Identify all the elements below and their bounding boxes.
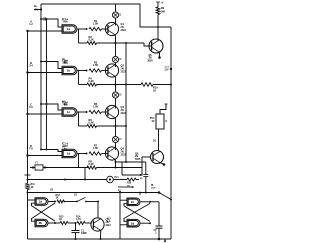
power bus +5V vertical (left) [40, 4, 42, 150]
series ticks row 2 [64, 60, 66, 63]
wire motor arrow [118, 186, 133, 188]
wire gate output row 1 [77, 28, 87, 30]
svg-text:12V: 12V [164, 70, 169, 72]
series ticks row 1 [43, 17, 45, 20]
resistor R3 [89, 69, 102, 72]
signal bus vertical (left) [46, 19, 48, 150]
wire upper input row 3 [41, 104, 62, 110]
wire emitter row 4 [114, 159, 116, 162]
svg-text:2b: 2b [39, 221, 43, 225]
capacitor C4 drop [145, 162, 147, 175]
emitter rail row 2 with R10 [97, 84, 142, 86]
lamp I3 [112, 92, 118, 98]
input node row 1 [26, 30, 28, 32]
node +5V terminal [40, 8, 42, 10]
wire latch B input bottom [120, 224, 127, 226]
wire collector row 3 [115, 98, 117, 108]
wire rail4 to supply rail [84, 168, 86, 180]
svg-text:1K: 1K [153, 89, 156, 92]
svg-text:R15: R15 [127, 183, 132, 185]
wire rail 4 left extension [30, 167, 35, 169]
svg-text:1.5K: 1.5K [93, 64, 98, 67]
wire Q6 base [142, 156, 151, 158]
wire input stub row 4 [28, 155, 63, 157]
lamp I2 [112, 56, 118, 62]
terminal arrow [164, 239, 166, 242]
resistor R9 [157, 2, 159, 7]
wire Q7 collector [97, 202, 99, 219]
wire gate output row 2 [77, 70, 87, 72]
svg-text:6V: 6V [152, 120, 155, 123]
svg-text:1.5K: 1.5K [93, 23, 98, 26]
wire upper input row 1 [41, 19, 62, 27]
wire latch B feed vertical [119, 192, 121, 239]
resistor R14 [77, 221, 85, 224]
gate IC2-b [35, 219, 48, 227]
svg-text:(+): (+) [166, 66, 169, 69]
resistor R2 [79, 42, 88, 44]
svg-text:1K: 1K [59, 219, 62, 221]
wire lamp top row 2 [115, 43, 117, 56]
wire latch B cross-coupling [140, 201, 150, 203]
transistor Q6 [151, 151, 164, 164]
wire base row 2 [102, 70, 109, 72]
svg-text:1K: 1K [31, 187, 34, 189]
input node row 4 [26, 154, 28, 156]
wire gate output row 3 [77, 111, 87, 113]
transistor Q1 [105, 22, 118, 35]
supply rail horizontal [28, 179, 107, 181]
svg-text:R14: R14 [76, 216, 81, 219]
wire gate output row 4 [77, 153, 87, 155]
svg-text:560: 560 [161, 10, 166, 13]
resistor R4 [79, 84, 88, 86]
input node row 2 [26, 71, 28, 73]
lamp I1 [112, 12, 118, 18]
gate IC2-d [127, 219, 140, 227]
wire reset rail [28, 192, 160, 194]
resistor R11 [25, 174, 31, 176]
input bus vertical (far left) [27, 31, 29, 175]
capacitor C1 [75, 223, 77, 231]
svg-text:R11: R11 [31, 183, 36, 186]
transistor Q2 [105, 64, 118, 77]
node +12V [170, 68, 172, 70]
svg-text:OUT: OUT [151, 188, 156, 190]
svg-text:1c: 1c [67, 110, 71, 114]
svg-text:R13: R13 [59, 216, 64, 219]
svg-text:2d: 2d [131, 221, 135, 225]
crystal Y1 (inline box) [35, 165, 43, 170]
svg-text:8.2K: 8.2K [89, 163, 94, 166]
svg-text:PL1: PL1 [115, 177, 120, 179]
right vertical supply wire [170, 27, 172, 239]
wire output drop row 3 [78, 112, 80, 126]
wire Q5 emitter terminal [158, 56, 161, 59]
resistor R10 [141, 83, 153, 87]
wire latch B input top [120, 199, 127, 201]
gate IC1-b [62, 66, 77, 74]
svg-text:3055: 3055 [147, 59, 153, 62]
emitter rail row 1 to Q5 base [97, 42, 145, 44]
svg-text:+5V: +5V [34, 8, 39, 11]
wire collector row 2 [115, 63, 117, 67]
wire lamp top row 3 [115, 85, 117, 92]
gate IC1-d [62, 149, 77, 157]
wire Q6 emitter terminal [163, 163, 166, 166]
wire latch A cross-coupling [48, 201, 55, 203]
svg-text:8.2K: 8.2K [89, 39, 94, 42]
resistor R5 [89, 110, 102, 113]
wire base row 3 [102, 111, 109, 113]
wire lamp top row 4 [115, 126, 117, 136]
ground rail bottom [28, 238, 172, 240]
svg-text:1a: 1a [67, 27, 71, 31]
gate IC2-c [127, 198, 140, 206]
resistor R12 [57, 200, 64, 203]
collector bus vertical [125, 43, 127, 162]
wire input stub row 1 [28, 30, 63, 32]
gate IC1-c [62, 108, 77, 116]
svg-text:R12: R12 [56, 194, 61, 197]
emitter rail row 4 [97, 167, 143, 169]
svg-text:1K: 1K [56, 198, 59, 200]
svg-text:1.5K: 1.5K [93, 147, 98, 150]
wire output drop row 4 [78, 154, 80, 168]
resistor R6 [79, 125, 88, 127]
resistor R13 [55, 222, 60, 224]
wire emitter row 3 [114, 118, 116, 121]
wire upper input row 2 [41, 62, 62, 69]
wire lamp top row 1 [115, 4, 117, 12]
resistor R7 [89, 152, 102, 155]
svg-text:3055: 3055 [135, 158, 141, 161]
wire emitter row 2 [114, 76, 116, 79]
wire output drop row 2 [78, 71, 80, 85]
svg-text:1b: 1b [67, 69, 71, 73]
wire output drop row 1 [78, 29, 80, 43]
pilot lamp PL1 [107, 176, 114, 183]
svg-text:1d: 1d [67, 152, 71, 156]
svg-text:2a: 2a [39, 200, 43, 204]
wire collector row 1 [115, 18, 117, 25]
series ticks row 3 [64, 103, 66, 106]
transistor Q5 [157, 27, 159, 41]
resistor R1 [89, 27, 102, 30]
gate IC2-a [35, 198, 48, 206]
svg-text:2222: 2222 [106, 225, 112, 227]
wire to right corner [159, 193, 171, 200]
svg-text:1.5K: 1.5K [93, 106, 98, 109]
wire upper input row 4 [41, 150, 62, 152]
svg-text:+V: +V [161, 2, 164, 4]
svg-text:7400: 7400 [62, 104, 68, 107]
resistor R8 [79, 167, 88, 169]
wire relay to Q6 collector [158, 129, 160, 151]
gate IC1-a [62, 25, 77, 33]
svg-text:4.7K: 4.7K [76, 218, 81, 221]
svg-text:7400: 7400 [62, 21, 68, 24]
wire base row 1 [102, 28, 109, 30]
resistor R15 [127, 178, 136, 181]
input node row 3 [26, 113, 28, 115]
svg-text:2222: 2222 [121, 29, 127, 32]
svg-text:7400: 7400 [62, 145, 68, 148]
svg-text:7400: 7400 [62, 62, 68, 65]
wire latch B output [150, 201, 159, 203]
transistor Q4 [105, 147, 118, 160]
wire emitter row 1 [114, 35, 116, 38]
transistor Q3 [105, 105, 118, 118]
wire latch A input top [28, 199, 36, 201]
svg-text:8.2K: 8.2K [89, 80, 94, 83]
lamp I4 [112, 136, 118, 142]
series ticks row 4 [64, 148, 66, 151]
wire input stub row 3 [28, 113, 63, 115]
wire base row 4 [102, 153, 109, 155]
capacitor C2 [158, 202, 160, 226]
wire collector row 4 [115, 143, 117, 150]
wire Q7 emitter [100, 230, 102, 237]
svg-text:2c: 2c [131, 200, 135, 204]
top +V rail [41, 4, 171, 27]
wire Q5 base jog [144, 43, 152, 46]
emitter rail row 3 [97, 125, 127, 127]
svg-text:8.2K: 8.2K [89, 122, 94, 125]
relay RY1 coil [156, 114, 164, 129]
wire collector bus to Q6 base loop [116, 161, 146, 163]
switch S5 [77, 197, 86, 201]
wire input stub row 2 [28, 72, 63, 74]
wire relay top contact [160, 104, 166, 114]
svg-text:10MF: 10MF [81, 233, 87, 235]
svg-text:IC2: IC2 [107, 217, 111, 220]
wire latch B riser [139, 193, 141, 195]
transistor Q7 [91, 218, 104, 231]
